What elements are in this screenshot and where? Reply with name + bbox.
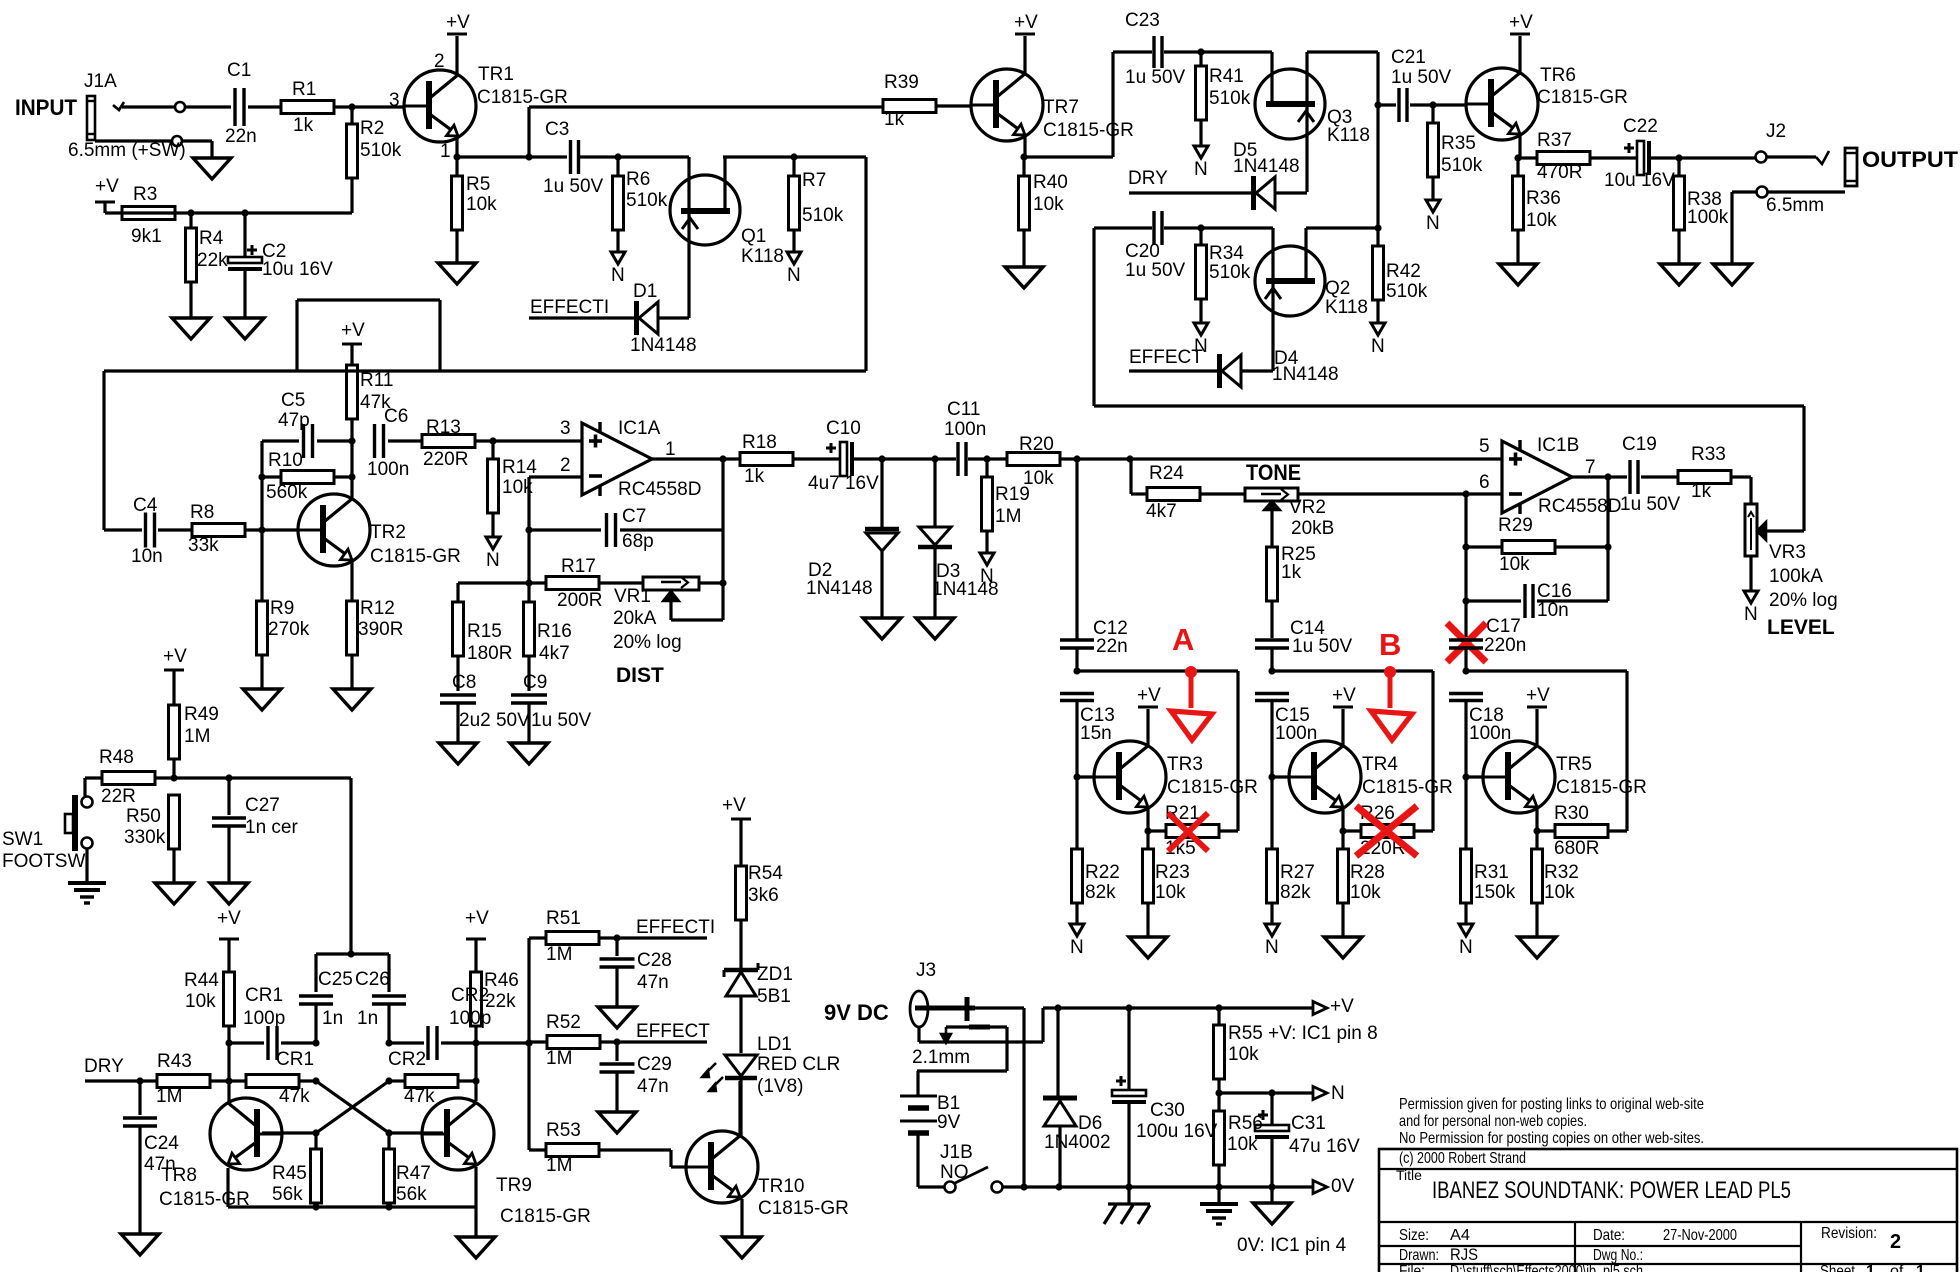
svg-text:C7: C7 bbox=[622, 506, 646, 527]
svg-text:EFFECT: EFFECT bbox=[636, 1021, 710, 1042]
svg-text:Dwg No.:: Dwg No.: bbox=[1593, 1247, 1643, 1264]
svg-text:510k: 510k bbox=[360, 140, 402, 161]
svg-text:R44: R44 bbox=[184, 970, 219, 991]
svg-text:510k: 510k bbox=[626, 190, 668, 211]
svg-text:R36: R36 bbox=[1526, 188, 1561, 209]
svg-text:N: N bbox=[486, 550, 500, 571]
svg-text:20kA: 20kA bbox=[613, 608, 657, 629]
svg-text:100p: 100p bbox=[449, 1008, 491, 1029]
svg-text:1N4148: 1N4148 bbox=[630, 335, 697, 356]
svg-text:6: 6 bbox=[1479, 472, 1490, 493]
svg-text:1M: 1M bbox=[546, 1048, 572, 1069]
svg-text:1k: 1k bbox=[293, 115, 314, 136]
svg-text:1: 1 bbox=[1866, 1263, 1875, 1272]
svg-text:10u 16V: 10u 16V bbox=[262, 259, 333, 280]
svg-text:C1815-GR: C1815-GR bbox=[370, 546, 461, 567]
svg-text:R55: R55 bbox=[1228, 1023, 1263, 1044]
svg-text:K118: K118 bbox=[741, 246, 784, 267]
svg-text:3: 3 bbox=[389, 90, 400, 111]
svg-text:27-Nov-2000: 27-Nov-2000 bbox=[1663, 1227, 1737, 1244]
svg-text:N: N bbox=[1744, 604, 1758, 625]
svg-text:3: 3 bbox=[560, 418, 571, 439]
svg-text:1n: 1n bbox=[357, 1008, 378, 1029]
svg-text:+V: +V bbox=[217, 908, 241, 929]
svg-text:5: 5 bbox=[1479, 436, 1490, 457]
svg-text:2: 2 bbox=[560, 455, 571, 476]
svg-text:510k: 510k bbox=[1386, 281, 1428, 302]
svg-text:0V: IC1 pin 4: 0V: IC1 pin 4 bbox=[1237, 1235, 1347, 1256]
svg-text:IC1B: IC1B bbox=[1537, 435, 1579, 456]
svg-text:82k: 82k bbox=[1280, 882, 1311, 903]
svg-text:R12: R12 bbox=[360, 598, 395, 619]
svg-text:33k: 33k bbox=[188, 535, 219, 556]
svg-text:47k: 47k bbox=[404, 1086, 435, 1107]
svg-text:R42: R42 bbox=[1386, 261, 1421, 282]
svg-text:C26: C26 bbox=[355, 969, 390, 990]
svg-text:10k: 10k bbox=[1155, 882, 1186, 903]
svg-text:+V: +V bbox=[163, 646, 187, 667]
svg-text:C28: C28 bbox=[637, 950, 672, 971]
svg-text:C10: C10 bbox=[826, 418, 861, 439]
svg-text:Drawn:: Drawn: bbox=[1399, 1247, 1439, 1264]
svg-text:TR3: TR3 bbox=[1167, 754, 1203, 775]
svg-text:N: N bbox=[1194, 159, 1208, 180]
svg-text:+V: +V bbox=[446, 12, 470, 33]
svg-text:68p: 68p bbox=[622, 531, 654, 552]
svg-text:390R: 390R bbox=[358, 619, 403, 640]
svg-text:C17: C17 bbox=[1486, 616, 1521, 637]
svg-text:EFFECT: EFFECT bbox=[1129, 347, 1203, 368]
svg-text:C1: C1 bbox=[227, 60, 251, 81]
svg-text:DRY: DRY bbox=[84, 1056, 124, 1077]
svg-text:VR3: VR3 bbox=[1769, 542, 1806, 563]
svg-text:10k: 10k bbox=[1544, 882, 1575, 903]
svg-text:NO: NO bbox=[940, 1162, 969, 1183]
svg-text:510k: 510k bbox=[1441, 155, 1483, 176]
svg-text:R54: R54 bbox=[748, 863, 783, 884]
svg-text:R29: R29 bbox=[1498, 515, 1533, 536]
svg-text:1u 50V: 1u 50V bbox=[531, 710, 592, 731]
svg-text:CR2: CR2 bbox=[451, 985, 489, 1006]
svg-text:ZD1: ZD1 bbox=[757, 964, 793, 985]
svg-text:C22: C22 bbox=[1623, 116, 1658, 137]
svg-text:D1: D1 bbox=[633, 281, 657, 302]
svg-text:R35: R35 bbox=[1441, 133, 1476, 154]
svg-text:R3: R3 bbox=[133, 184, 157, 205]
svg-text:1u 50V: 1u 50V bbox=[1125, 67, 1186, 88]
svg-text:180R: 180R bbox=[467, 643, 512, 664]
svg-text:C1815-GR: C1815-GR bbox=[1556, 777, 1647, 798]
svg-text:R11: R11 bbox=[360, 370, 393, 391]
svg-text:6.5mm (+SW): 6.5mm (+SW) bbox=[68, 140, 186, 161]
svg-text:47u 16V: 47u 16V bbox=[1289, 1136, 1360, 1157]
svg-text:R7: R7 bbox=[802, 170, 826, 191]
svg-text:100p: 100p bbox=[243, 1008, 285, 1029]
svg-text:Size:: Size: bbox=[1399, 1227, 1429, 1244]
svg-text:R51: R51 bbox=[546, 908, 581, 929]
svg-text:6.5mm: 6.5mm bbox=[1766, 195, 1824, 216]
svg-text:1N4148: 1N4148 bbox=[806, 578, 873, 599]
svg-text:EFFECTI: EFFECTI bbox=[636, 917, 715, 938]
svg-text:9V: 9V bbox=[937, 1112, 961, 1133]
svg-text:Title: Title bbox=[1396, 1167, 1422, 1183]
svg-text:TR10: TR10 bbox=[758, 1176, 804, 1197]
svg-text:N: N bbox=[980, 566, 994, 587]
svg-text:R23: R23 bbox=[1155, 862, 1190, 883]
svg-text:C31: C31 bbox=[1291, 1113, 1326, 1134]
svg-text:CR1: CR1 bbox=[245, 985, 283, 1006]
svg-text:R1: R1 bbox=[292, 79, 316, 100]
svg-text:N: N bbox=[1426, 213, 1440, 234]
svg-text:C23: C23 bbox=[1125, 10, 1160, 31]
svg-text:Revision:: Revision: bbox=[1821, 1225, 1877, 1242]
svg-text:R17: R17 bbox=[561, 556, 596, 577]
svg-text:R49: R49 bbox=[184, 704, 219, 725]
svg-text:C1815-GR: C1815-GR bbox=[477, 87, 568, 108]
svg-text:Date:: Date: bbox=[1593, 1227, 1625, 1244]
svg-text:1k: 1k bbox=[1691, 481, 1712, 502]
svg-text:7: 7 bbox=[1585, 457, 1596, 478]
svg-text:TR1: TR1 bbox=[478, 64, 514, 85]
svg-text:R16: R16 bbox=[537, 621, 572, 642]
svg-text:47n: 47n bbox=[637, 972, 669, 993]
svg-text:2: 2 bbox=[434, 51, 445, 72]
svg-text:R10: R10 bbox=[268, 450, 303, 471]
svg-text:TR6: TR6 bbox=[1540, 65, 1576, 86]
svg-text:B1: B1 bbox=[937, 1093, 960, 1114]
svg-text:10k: 10k bbox=[1033, 194, 1064, 215]
svg-text:2.1mm: 2.1mm bbox=[912, 1047, 970, 1068]
svg-text:Permission given for posting l: Permission given for posting links to or… bbox=[1399, 1096, 1704, 1113]
svg-text:1n cer: 1n cer bbox=[245, 817, 298, 838]
svg-text:100u 16V: 100u 16V bbox=[1136, 1121, 1218, 1142]
svg-text:1M: 1M bbox=[546, 944, 572, 965]
svg-text:RJS: RJS bbox=[1450, 1245, 1478, 1264]
svg-text:R45: R45 bbox=[272, 1163, 307, 1184]
svg-text:C3: C3 bbox=[545, 119, 569, 140]
svg-text:LEVEL: LEVEL bbox=[1767, 616, 1835, 639]
svg-text:1M: 1M bbox=[546, 1155, 572, 1176]
svg-text:C11: C11 bbox=[947, 399, 980, 420]
svg-text:N: N bbox=[1331, 1083, 1345, 1104]
svg-text:R41: R41 bbox=[1209, 66, 1244, 87]
svg-text:+V: +V bbox=[95, 176, 119, 197]
svg-text:C24: C24 bbox=[144, 1133, 179, 1154]
svg-text:FOOTSW: FOOTSW bbox=[2, 851, 85, 872]
svg-text:No Permission for posting copi: No Permission for posting copies on othe… bbox=[1399, 1130, 1704, 1147]
svg-text:1k: 1k bbox=[1281, 562, 1302, 583]
svg-text:1n: 1n bbox=[322, 1008, 343, 1029]
svg-text:10k: 10k bbox=[1023, 468, 1054, 489]
svg-text:R2: R2 bbox=[360, 118, 384, 139]
svg-text:+V: IC1 pin 8: +V: IC1 pin 8 bbox=[1268, 1023, 1378, 1044]
svg-text:A4: A4 bbox=[1450, 1227, 1470, 1244]
svg-text:VR2: VR2 bbox=[1289, 497, 1326, 518]
svg-text:R33: R33 bbox=[1691, 444, 1726, 465]
svg-text:C19: C19 bbox=[1622, 434, 1657, 455]
svg-text:R30: R30 bbox=[1554, 803, 1589, 824]
svg-text:R24: R24 bbox=[1149, 463, 1184, 484]
svg-text:470R: 470R bbox=[1537, 162, 1582, 183]
svg-text:TR2: TR2 bbox=[370, 522, 406, 543]
svg-text:SW1: SW1 bbox=[2, 829, 43, 850]
svg-text:R5: R5 bbox=[466, 174, 490, 195]
svg-text:EFFECTI: EFFECTI bbox=[530, 297, 609, 318]
svg-text:C1815-GR: C1815-GR bbox=[758, 1198, 849, 1219]
svg-text:510k: 510k bbox=[802, 205, 844, 226]
svg-text:C6: C6 bbox=[384, 406, 408, 427]
svg-text:9k1: 9k1 bbox=[131, 226, 162, 247]
svg-text:R9: R9 bbox=[270, 598, 294, 619]
svg-text:22R: 22R bbox=[101, 786, 136, 807]
svg-text:R48: R48 bbox=[99, 747, 134, 768]
svg-text:TR7: TR7 bbox=[1043, 97, 1079, 118]
svg-text:Sheet: Sheet bbox=[1820, 1263, 1855, 1272]
svg-text:1u 50V: 1u 50V bbox=[1391, 67, 1452, 88]
svg-text:C25: C25 bbox=[318, 969, 353, 990]
svg-text:10u 16V: 10u 16V bbox=[1604, 170, 1675, 191]
svg-text:R13: R13 bbox=[426, 417, 461, 438]
svg-text:2: 2 bbox=[1890, 1231, 1901, 1253]
svg-text:R52: R52 bbox=[546, 1012, 581, 1033]
svg-text:+V: +V bbox=[1509, 12, 1533, 33]
svg-text:22n: 22n bbox=[1096, 636, 1128, 657]
svg-text:56k: 56k bbox=[272, 1184, 303, 1205]
svg-text:1M: 1M bbox=[995, 506, 1021, 527]
svg-text:R46: R46 bbox=[484, 970, 519, 991]
svg-text:R34: R34 bbox=[1209, 243, 1244, 264]
svg-text:R27: R27 bbox=[1280, 862, 1315, 883]
svg-text:J2: J2 bbox=[1766, 121, 1786, 142]
svg-text:N: N bbox=[1459, 937, 1473, 958]
svg-text:1u 50V: 1u 50V bbox=[1292, 636, 1353, 657]
svg-text:D6: D6 bbox=[1078, 1113, 1102, 1134]
svg-text:1k: 1k bbox=[884, 109, 905, 130]
svg-text:5B1: 5B1 bbox=[757, 986, 791, 1007]
svg-text:R43: R43 bbox=[157, 1051, 192, 1072]
svg-text:100n: 100n bbox=[1469, 723, 1511, 744]
svg-text:B: B bbox=[1379, 627, 1401, 662]
svg-text:220R: 220R bbox=[423, 449, 468, 470]
svg-text:C27: C27 bbox=[245, 795, 280, 816]
svg-text:+V: +V bbox=[1014, 12, 1038, 33]
svg-text:INPUT: INPUT bbox=[15, 95, 78, 120]
svg-text:IC1A: IC1A bbox=[618, 418, 661, 439]
svg-text:N: N bbox=[787, 265, 801, 286]
svg-text:22k: 22k bbox=[197, 250, 228, 271]
svg-text:C9: C9 bbox=[523, 672, 547, 693]
svg-text:47n: 47n bbox=[637, 1076, 669, 1097]
svg-text:+V: +V bbox=[722, 795, 746, 816]
svg-text:D:\stuff\sch\Effects2000\ib_pl: D:\stuff\sch\Effects2000\ib_pl5.sch bbox=[1450, 1263, 1643, 1272]
svg-text:IBANEZ SOUNDTANK: POWER LEAD P: IBANEZ SOUNDTANK: POWER LEAD PL5 bbox=[1432, 1177, 1791, 1204]
svg-text:1N4002: 1N4002 bbox=[1044, 1132, 1111, 1153]
svg-text:9V DC: 9V DC bbox=[824, 1000, 889, 1025]
svg-text:+V: +V bbox=[465, 908, 489, 929]
svg-text:+V: +V bbox=[1330, 996, 1354, 1017]
svg-text:1u 50V: 1u 50V bbox=[1620, 494, 1681, 515]
svg-text:OUTPUT: OUTPUT bbox=[1862, 147, 1959, 172]
svg-text:J3: J3 bbox=[916, 960, 936, 981]
svg-text:C1815-GR: C1815-GR bbox=[1043, 120, 1134, 141]
svg-text:10k: 10k bbox=[1526, 210, 1557, 231]
svg-text:C1815-GR: C1815-GR bbox=[1167, 777, 1258, 798]
svg-text:270k: 270k bbox=[268, 619, 310, 640]
svg-text:4k7: 4k7 bbox=[1146, 501, 1177, 522]
svg-text:C1815-GR: C1815-GR bbox=[500, 1206, 591, 1227]
svg-text:10k: 10k bbox=[1228, 1044, 1259, 1065]
svg-text:100n: 100n bbox=[944, 419, 986, 440]
svg-text:TONE: TONE bbox=[1246, 460, 1301, 485]
svg-text:200R: 200R bbox=[557, 590, 602, 611]
svg-text:100kA: 100kA bbox=[1769, 566, 1823, 587]
svg-text:TR9: TR9 bbox=[496, 1175, 532, 1196]
svg-text:C29: C29 bbox=[637, 1054, 672, 1075]
svg-text:R50: R50 bbox=[126, 806, 161, 827]
svg-text:1M: 1M bbox=[156, 1086, 182, 1107]
svg-text:Q2: Q2 bbox=[1325, 278, 1350, 299]
svg-text:R31: R31 bbox=[1474, 862, 1509, 883]
svg-text:+V: +V bbox=[1137, 685, 1161, 706]
svg-text:J1A: J1A bbox=[84, 71, 117, 92]
svg-text:R4: R4 bbox=[199, 228, 224, 249]
svg-text:R47: R47 bbox=[396, 1163, 431, 1184]
svg-text:R40: R40 bbox=[1033, 172, 1068, 193]
svg-text:R8: R8 bbox=[190, 502, 214, 523]
svg-text:R22: R22 bbox=[1085, 862, 1120, 883]
svg-text:560k: 560k bbox=[266, 482, 308, 503]
svg-text:TR5: TR5 bbox=[1556, 754, 1592, 775]
svg-text:File:: File: bbox=[1399, 1263, 1425, 1272]
svg-text:47k: 47k bbox=[279, 1086, 310, 1107]
svg-text:R14: R14 bbox=[502, 457, 537, 478]
svg-text:R6: R6 bbox=[626, 169, 650, 190]
svg-text:22n: 22n bbox=[225, 126, 257, 147]
svg-text:(c) 2000 Robert Strand: (c) 2000 Robert Strand bbox=[1399, 1150, 1526, 1167]
svg-text:K118: K118 bbox=[1325, 297, 1368, 318]
svg-text:+V: +V bbox=[1332, 685, 1356, 706]
svg-text:10k: 10k bbox=[1350, 882, 1381, 903]
svg-text:4u7 16V: 4u7 16V bbox=[808, 473, 879, 494]
svg-text:N: N bbox=[1371, 336, 1385, 357]
svg-text:510k: 510k bbox=[1209, 88, 1251, 109]
svg-text:10k: 10k bbox=[185, 991, 216, 1012]
svg-text:N: N bbox=[1265, 937, 1279, 958]
svg-text:J1B: J1B bbox=[940, 1142, 973, 1163]
svg-text:C1815-GR: C1815-GR bbox=[1362, 777, 1453, 798]
svg-text:47p: 47p bbox=[278, 410, 310, 431]
svg-text:(1V8): (1V8) bbox=[757, 1076, 803, 1097]
svg-text:R53: R53 bbox=[546, 1120, 581, 1141]
svg-text:VR1: VR1 bbox=[614, 586, 651, 607]
svg-text:R37: R37 bbox=[1537, 130, 1572, 151]
svg-text:A: A bbox=[1172, 622, 1194, 657]
svg-text:C1815-GR: C1815-GR bbox=[1537, 87, 1628, 108]
svg-text:C20: C20 bbox=[1125, 241, 1160, 262]
svg-text:1: 1 bbox=[665, 439, 676, 460]
svg-text:10n: 10n bbox=[131, 546, 163, 567]
svg-text:220n: 220n bbox=[1484, 635, 1526, 656]
svg-text:C16: C16 bbox=[1537, 581, 1572, 602]
svg-text:R15: R15 bbox=[467, 621, 502, 642]
svg-text:TR4: TR4 bbox=[1362, 754, 1398, 775]
svg-text:R32: R32 bbox=[1544, 862, 1579, 883]
svg-text:C21: C21 bbox=[1391, 47, 1426, 68]
svg-text:RC4558D: RC4558D bbox=[618, 479, 701, 500]
svg-text:20kB: 20kB bbox=[1291, 518, 1334, 539]
svg-text:1N4148: 1N4148 bbox=[1272, 364, 1339, 385]
svg-text:150k: 150k bbox=[1474, 882, 1516, 903]
svg-text:1: 1 bbox=[440, 141, 451, 162]
svg-text:15n: 15n bbox=[1080, 723, 1112, 744]
svg-text:82k: 82k bbox=[1085, 882, 1116, 903]
svg-text:1u 50V: 1u 50V bbox=[1125, 260, 1186, 281]
svg-text:+V: +V bbox=[341, 320, 365, 341]
svg-text:DRY: DRY bbox=[1128, 168, 1168, 189]
svg-text:1: 1 bbox=[1916, 1263, 1925, 1272]
svg-text:N: N bbox=[611, 265, 625, 286]
svg-text:1N4148: 1N4148 bbox=[1233, 156, 1300, 177]
svg-text:R20: R20 bbox=[1019, 434, 1054, 455]
svg-text:10n: 10n bbox=[1537, 600, 1569, 621]
svg-text:C5: C5 bbox=[281, 390, 305, 411]
svg-text:3k6: 3k6 bbox=[748, 885, 779, 906]
svg-text:10k: 10k bbox=[1499, 554, 1530, 575]
svg-text:100k: 100k bbox=[1687, 207, 1729, 228]
svg-text:1M: 1M bbox=[184, 726, 210, 747]
svg-text:56k: 56k bbox=[396, 1184, 427, 1205]
svg-text:100n: 100n bbox=[1275, 723, 1317, 744]
svg-text:RED CLR: RED CLR bbox=[757, 1054, 840, 1075]
svg-text:CR1: CR1 bbox=[276, 1049, 314, 1070]
svg-text:100n: 100n bbox=[367, 459, 409, 480]
svg-text:0V: 0V bbox=[1331, 1176, 1355, 1197]
svg-text:20% log: 20% log bbox=[613, 632, 682, 653]
svg-text:20% log: 20% log bbox=[1769, 590, 1838, 611]
svg-text:TR8: TR8 bbox=[161, 1165, 197, 1186]
svg-text:10k: 10k bbox=[466, 194, 497, 215]
svg-text:1k: 1k bbox=[744, 466, 765, 487]
svg-text:+V: +V bbox=[1526, 685, 1550, 706]
svg-text:and for personal non-web copie: and for personal non-web copies. bbox=[1399, 1113, 1587, 1130]
svg-text:K118: K118 bbox=[1327, 125, 1370, 146]
svg-text:N: N bbox=[1070, 937, 1084, 958]
svg-text:680R: 680R bbox=[1554, 838, 1599, 859]
svg-text:C8: C8 bbox=[452, 672, 476, 693]
svg-text:LD1: LD1 bbox=[757, 1034, 792, 1055]
svg-text:DIST: DIST bbox=[616, 664, 664, 687]
svg-text:510k: 510k bbox=[1209, 262, 1251, 283]
svg-text:10k: 10k bbox=[1227, 1134, 1258, 1155]
svg-text:of: of bbox=[1890, 1263, 1904, 1272]
svg-text:330k: 330k bbox=[124, 827, 166, 848]
svg-text:C4: C4 bbox=[133, 495, 158, 516]
svg-text:R39: R39 bbox=[884, 72, 919, 93]
svg-text:R28: R28 bbox=[1350, 862, 1385, 883]
svg-text:C30: C30 bbox=[1150, 1100, 1185, 1121]
svg-text:R18: R18 bbox=[742, 432, 777, 453]
svg-text:2u2 50V: 2u2 50V bbox=[459, 710, 530, 731]
svg-text:Q1: Q1 bbox=[741, 226, 766, 247]
svg-text:1u 50V: 1u 50V bbox=[543, 176, 604, 197]
svg-text:4k7: 4k7 bbox=[539, 643, 570, 664]
svg-text:CR2: CR2 bbox=[388, 1049, 426, 1070]
